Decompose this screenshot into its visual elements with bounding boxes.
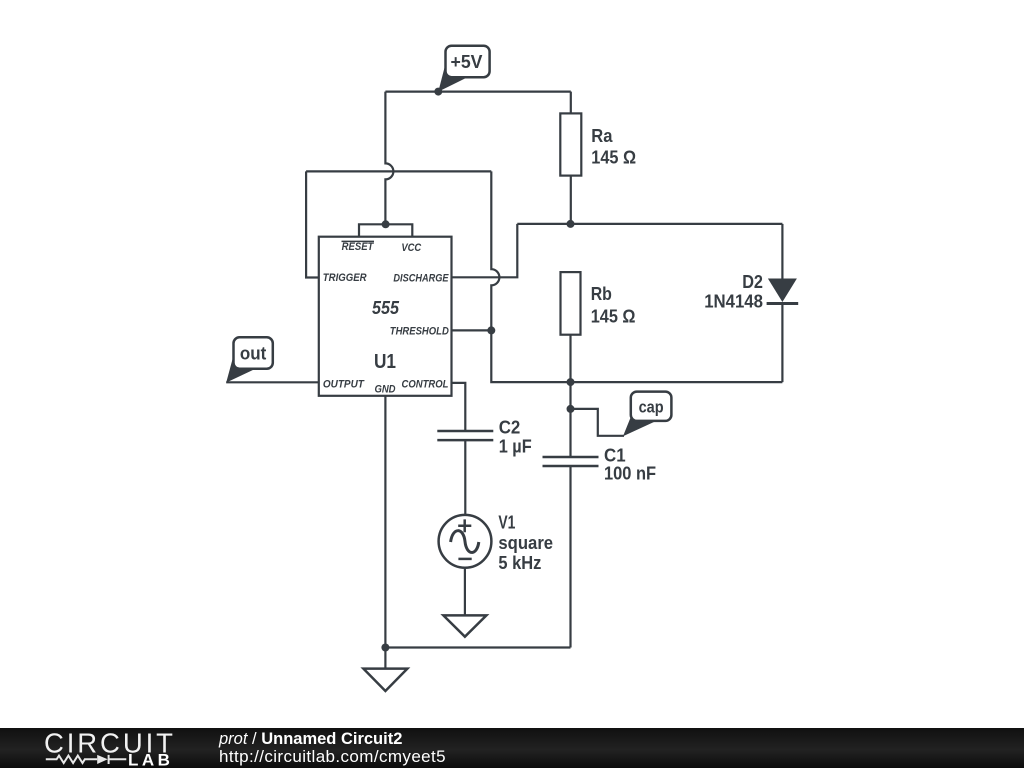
wire threshold lead	[452, 329, 492, 331]
junction dot cap node	[567, 405, 575, 413]
wire C1 bottom lead	[569, 466, 571, 648]
svg-text:cap: cap	[639, 398, 664, 417]
wire trigger drop	[306, 171, 319, 277]
junction dot bottom rail	[567, 378, 575, 386]
svg-text:1 µF: 1 µF	[499, 437, 532, 457]
wire right vertical with hop to bottom rail	[491, 171, 782, 382]
svg-text:OUTPUT: OUTPUT	[323, 379, 365, 391]
wire +5V left riser with hop	[385, 92, 393, 225]
source V1	[439, 515, 492, 568]
junction dot threshold	[487, 326, 495, 334]
ground V1	[443, 615, 486, 636]
net label +5V	[438, 46, 489, 92]
ground main	[363, 669, 407, 691]
wire Rb bottom lead	[569, 335, 571, 382]
capacitor C1	[543, 457, 599, 466]
svg-text:C1: C1	[604, 446, 626, 466]
pin RESET	[342, 241, 375, 253]
svg-text:square: square	[498, 533, 553, 553]
svg-text:out: out	[240, 344, 266, 364]
svg-text:THRESHOLD: THRESHOLD	[390, 326, 449, 338]
wire Ra bottom lead	[570, 176, 572, 224]
svg-text:D2: D2	[742, 272, 763, 292]
svg-text:DISCHARGE: DISCHARGE	[393, 273, 449, 285]
junction dot reset-vcc	[382, 220, 390, 228]
svg-text:TRIGGER: TRIGGER	[323, 272, 367, 284]
svg-text:100 nF: 100 nF	[604, 464, 656, 484]
wire bottom rail	[385, 646, 570, 648]
diode D2	[767, 279, 799, 304]
svg-text:C2: C2	[499, 418, 521, 438]
svg-text:555: 555	[372, 298, 400, 318]
svg-text:VCC: VCC	[401, 242, 422, 254]
wire +5V horizontal	[385, 90, 570, 92]
wire Ra top lead	[570, 92, 572, 114]
svg-text:Ra: Ra	[591, 126, 613, 146]
wire C1 top lead	[569, 382, 571, 457]
junction dot Ra-Rb node	[567, 220, 575, 228]
resistor Rb	[561, 272, 581, 335]
wire cap flag lead	[571, 409, 625, 436]
svg-text:GND: GND	[374, 383, 395, 395]
junction dot +5V	[434, 88, 442, 96]
svg-text:CONTROL: CONTROL	[402, 379, 449, 391]
capacitor C2	[437, 431, 493, 440]
svg-text:V1: V1	[498, 513, 515, 533]
wire discharge lead	[452, 224, 518, 277]
wire ground stub	[384, 648, 386, 669]
wire C2 to V1	[464, 440, 466, 516]
wire D2 bottom lead	[781, 303, 783, 383]
svg-text:+5V: +5V	[451, 52, 483, 72]
wire V1 to ground	[464, 569, 466, 616]
svg-text:RESET: RESET	[342, 241, 375, 253]
junction dot gnd rail	[381, 644, 389, 652]
wire output lead	[226, 381, 319, 383]
svg-text:145 Ω: 145 Ω	[591, 307, 636, 327]
CircuitLab logo	[0, 728, 200, 768]
wire gnd pin drop	[384, 396, 386, 648]
svg-text:1N4148: 1N4148	[704, 292, 763, 312]
svg-text:Rb: Rb	[591, 284, 612, 304]
svg-text:145 Ω: 145 Ω	[591, 148, 636, 168]
wire reset-vcc tee	[359, 224, 412, 236]
op-amp U1 555 IC box	[319, 237, 452, 396]
wire control lead	[452, 383, 466, 431]
svg-text:LAB: LAB	[128, 751, 173, 768]
svg-text:U1: U1	[374, 351, 396, 373]
wire mid horizontal rail	[517, 223, 782, 225]
wire top horizontal trigger net	[306, 170, 491, 172]
wire D2 top lead	[781, 224, 783, 279]
net label out	[226, 337, 273, 382]
net label cap	[623, 392, 671, 437]
svg-text:5 kHz: 5 kHz	[498, 553, 541, 573]
resistor Ra	[560, 113, 581, 175]
